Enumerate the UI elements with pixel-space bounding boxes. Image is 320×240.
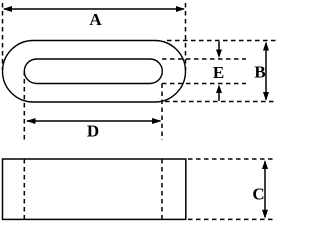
dimension B upper arrowhead (263, 42, 269, 51)
dimension A line (4, 8, 184, 10)
dimension C lower arrowhead (262, 210, 268, 219)
svg-text:B: B (254, 63, 265, 82)
dimension E upper arrow (218, 42, 220, 53)
dimension A right arrowhead (176, 6, 185, 12)
svg-text:A: A (89, 10, 102, 29)
side view rectangle (3, 159, 186, 219)
dashed line at side-view top level (188, 158, 275, 160)
svg-text:E: E (213, 63, 224, 82)
dimension D right arrowhead (152, 118, 162, 124)
inner slot outline (top view) (24, 59, 162, 84)
extension line left (dim A) (2, 3, 4, 70)
extension line right (dim D) (161, 84, 163, 141)
svg-text:D: D (87, 122, 99, 141)
dimension A left arrowhead (3, 6, 12, 12)
dimension C upper arrowhead (262, 160, 268, 169)
extension line right (dim A) (185, 3, 187, 70)
hidden slot edge right (side view) (161, 159, 163, 219)
dashed line at inner bottom level (162, 83, 246, 85)
dashed line at outer bottom level (165, 101, 276, 103)
hidden slot edge left (side view) (23, 159, 25, 219)
outer slot outline (top view) (3, 41, 186, 103)
dashed line at side-view bottom level (188, 218, 275, 220)
extension line left (dim D) (23, 71, 25, 140)
svg-text:C: C (252, 185, 264, 204)
dimension D line (27, 120, 161, 122)
dimension E lower arrow (218, 91, 220, 101)
dimension C line (264, 162, 266, 218)
dimension B lower arrowhead (263, 92, 269, 101)
dashed line at inner top level (162, 58, 246, 60)
dimension B line (265, 43, 267, 100)
dashed line at outer top level (167, 40, 276, 42)
dimension D left arrowhead (26, 118, 36, 124)
